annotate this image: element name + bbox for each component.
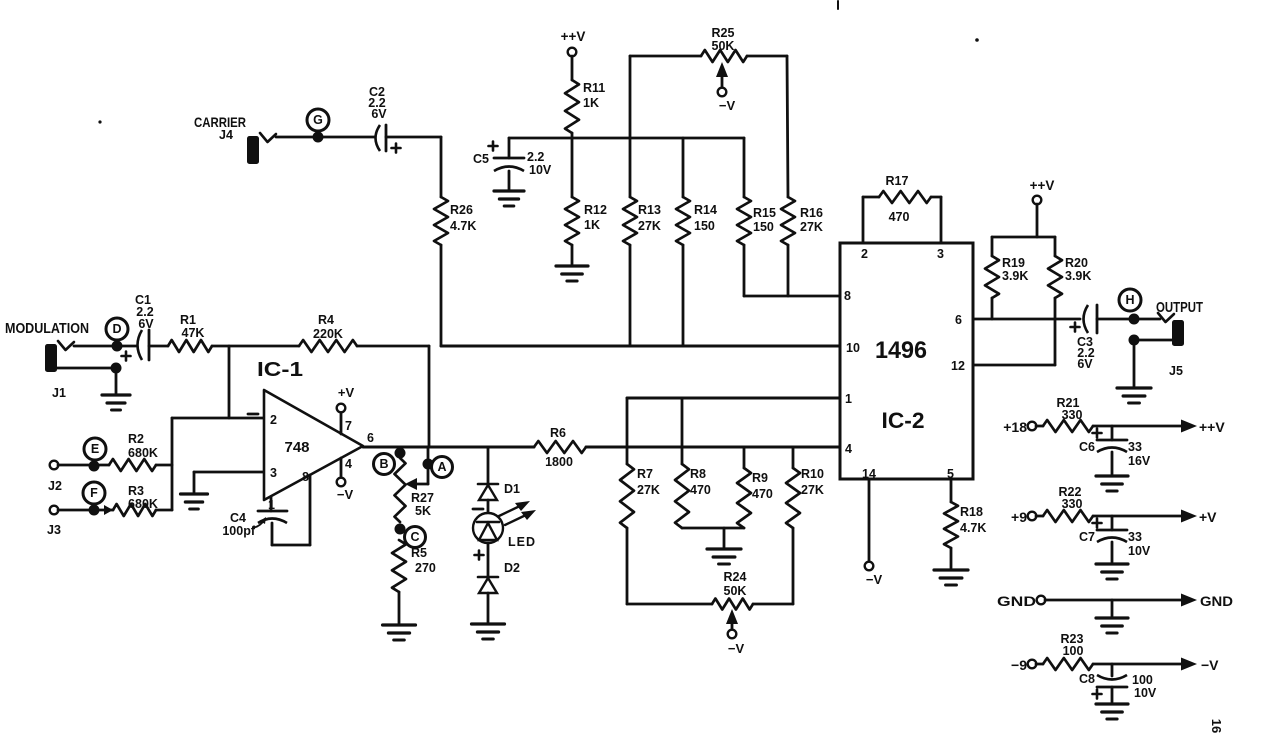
svg-text:A: A — [437, 460, 446, 474]
wire R11 to R12 — [571, 133, 574, 197]
svg-text:2: 2 — [861, 247, 868, 261]
wire -9 to R23 — [1036, 663, 1043, 666]
wire R20 top — [1054, 237, 1057, 256]
label R18 value — [960, 505, 986, 535]
terminal R25 wiper -V — [718, 88, 727, 97]
svg-text:J3: J3 — [47, 523, 61, 537]
pin 2 label IC2 — [861, 247, 868, 261]
svg-text:R7: R7 — [637, 467, 653, 481]
label -V R24 — [728, 641, 745, 656]
resistor R20 — [1048, 256, 1062, 298]
wire R3 to pin2 rail — [156, 509, 172, 512]
svg-text:4.7K: 4.7K — [960, 521, 986, 535]
capacitor C8 — [1093, 675, 1128, 699]
wire R8 R9 bottoms — [682, 527, 744, 530]
svg-text:+18: +18 — [1003, 419, 1027, 435]
wire pin3 to ground — [193, 472, 196, 492]
resistor R19 — [985, 256, 999, 298]
resistor R16 — [781, 197, 795, 245]
node F — [83, 482, 105, 504]
svg-text:D2: D2 — [504, 561, 520, 575]
wire pin1 to R7 — [626, 398, 629, 464]
potentiometer R24 — [712, 599, 753, 610]
wire C7 to ground — [1111, 542, 1114, 562]
pin 8 label — [302, 470, 309, 484]
ground J1 — [102, 395, 130, 410]
label C7 value — [1128, 530, 1151, 558]
potentiometer R27 — [395, 458, 406, 522]
svg-text:6: 6 — [367, 431, 374, 445]
wire LED stub — [487, 447, 490, 484]
svg-text:R15: R15 — [753, 206, 776, 220]
svg-text:3.9K: 3.9K — [1065, 269, 1091, 283]
svg-text:IC-1: IC-1 — [257, 359, 303, 381]
resistor R22 — [1043, 510, 1093, 522]
svg-text:R1: R1 — [180, 313, 196, 327]
resistor R11 — [565, 80, 579, 133]
wire pin3 stub — [931, 197, 941, 243]
wire J4 tip to G — [276, 136, 374, 139]
label ++V top — [561, 29, 586, 44]
wire R25 to R13 — [629, 56, 632, 197]
label R8 value — [690, 467, 711, 497]
label C5 value — [527, 150, 552, 177]
svg-text:748: 748 — [285, 439, 310, 456]
svg-text:R11: R11 — [583, 81, 605, 95]
svg-text:++V: ++V — [1030, 178, 1055, 193]
wire GND line — [1045, 599, 1181, 602]
resistor R21 — [1043, 420, 1093, 432]
wire pin2 line — [172, 417, 264, 420]
label +9 — [1011, 509, 1027, 525]
svg-text:50K: 50K — [724, 584, 747, 598]
capacitor C2 — [376, 125, 401, 153]
resistor R12 — [565, 197, 579, 245]
LED — [473, 513, 503, 543]
arrow GND — [1181, 594, 1197, 607]
svg-text:R26: R26 — [450, 203, 473, 217]
node A stub — [427, 447, 430, 484]
pin 7 stub — [340, 412, 343, 434]
svg-text:50K: 50K — [712, 39, 735, 53]
wire R4 to feedback corner — [357, 345, 429, 348]
label +V opamp — [338, 385, 355, 400]
wire J5 sleeve — [1134, 339, 1172, 342]
terminal -9 — [1028, 660, 1037, 669]
label C2 value — [368, 85, 387, 121]
svg-text:27K: 27K — [800, 220, 823, 234]
wire +18 to R21 — [1036, 425, 1043, 428]
node G — [307, 109, 329, 131]
svg-text:270: 270 — [415, 561, 436, 575]
wire R21 to ++V arrow — [1093, 425, 1181, 428]
svg-text:100pf: 100pf — [222, 524, 255, 538]
ground pin3 — [181, 494, 208, 509]
svg-text:−V: −V — [337, 487, 354, 502]
label R24 value — [724, 570, 747, 598]
svg-text:100: 100 — [1063, 644, 1084, 658]
svg-text:3.9K: 3.9K — [1002, 269, 1028, 283]
node D — [106, 318, 128, 340]
wire pin10 rail — [441, 345, 840, 348]
svg-text:R12: R12 — [584, 203, 607, 217]
label +V out — [1199, 509, 1217, 525]
svg-text:J1: J1 — [52, 386, 66, 400]
svg-text:J2: J2 — [48, 479, 62, 493]
svg-text:−V: −V — [719, 98, 736, 113]
junction J1 sleeve dot — [111, 363, 122, 374]
pin 6 label IC2 — [955, 313, 962, 327]
wire C6 to ground — [1111, 452, 1114, 474]
ground C5 — [494, 191, 524, 206]
svg-text:R13: R13 — [638, 203, 661, 217]
junction J5 sleeve dot — [1129, 335, 1140, 346]
wire R13 to pin10 rail — [629, 245, 632, 346]
svg-text:C6: C6 — [1079, 440, 1095, 454]
svg-text:R24: R24 — [724, 570, 747, 584]
label R26 value — [450, 203, 476, 233]
label LED — [508, 535, 536, 549]
jack J1 — [45, 341, 74, 372]
resistor R1 — [168, 340, 212, 352]
wire pin2 vertical rail — [171, 418, 174, 510]
scan speck top — [837, 1, 839, 9]
node B dot — [395, 448, 406, 459]
svg-text:B: B — [379, 457, 388, 471]
ground R5 — [383, 625, 416, 640]
svg-text:R14: R14 — [694, 203, 717, 217]
svg-text:3: 3 — [937, 247, 944, 261]
terminal GND — [1037, 596, 1046, 605]
wire R1 to R4 — [212, 345, 299, 348]
svg-text:R2: R2 — [128, 432, 144, 446]
terminal +9 — [1028, 512, 1037, 521]
wire pin2 stub — [863, 197, 879, 243]
pin 1 label IC2 — [845, 392, 852, 406]
arrow ++V — [1181, 420, 1197, 433]
wire opamp output line — [363, 446, 534, 449]
svg-text:R3: R3 — [128, 484, 144, 498]
wire pin4 to R9 — [743, 447, 746, 468]
wire C7 tap — [1111, 516, 1114, 530]
label CARRIER — [194, 114, 246, 130]
label minus opamp — [248, 413, 258, 416]
svg-text:J4: J4 — [219, 128, 233, 142]
svg-text:R16: R16 — [800, 206, 823, 220]
resistor R26 — [434, 197, 448, 245]
svg-text:1496: 1496 — [875, 337, 927, 364]
svg-text:330: 330 — [1062, 408, 1083, 422]
svg-text:GND: GND — [1200, 594, 1233, 609]
svg-text:10V: 10V — [1134, 686, 1157, 700]
pin 8 label IC2 — [844, 289, 851, 303]
capacitor C6 — [1093, 429, 1128, 453]
resistor R17 — [879, 191, 931, 203]
label +18 — [1003, 419, 1027, 435]
wire C6 tap — [1111, 426, 1114, 440]
svg-text:+9: +9 — [1011, 509, 1027, 525]
svg-text:4: 4 — [845, 442, 852, 456]
wire R19 top — [991, 237, 994, 256]
wire R20 to pin12 — [1054, 298, 1057, 365]
label C3 value — [1077, 335, 1095, 371]
wire R2 to pin2 rail — [156, 464, 172, 467]
wire pin4 rail — [586, 446, 840, 449]
label R9 value — [752, 471, 773, 501]
capacitor C5 — [489, 142, 525, 172]
wire R14 top — [682, 138, 685, 197]
pin 4 label — [345, 457, 352, 471]
label D1 — [504, 482, 520, 496]
label C6 — [1079, 440, 1095, 454]
svg-text:6: 6 — [955, 313, 962, 327]
svg-text:MODULATION: MODULATION — [5, 321, 89, 337]
ground LED — [472, 624, 505, 639]
pin 3 label — [270, 466, 277, 480]
svg-text:6V: 6V — [371, 107, 387, 121]
wire pin5 stub — [950, 479, 953, 502]
wire R26 to pin10 rail — [440, 245, 443, 346]
wire J3 to R3 — [58, 509, 113, 512]
ground C7 — [1096, 564, 1128, 579]
pin 7 label — [345, 419, 352, 433]
wire R25 to R16 — [787, 56, 788, 197]
wire pin3 line — [194, 471, 264, 474]
jack J5 — [1158, 313, 1184, 346]
wire J1 sleeve to ground — [115, 368, 118, 393]
svg-text:J5: J5 — [1169, 364, 1183, 378]
wiper R24 — [726, 609, 738, 630]
wire +9 to R22 — [1036, 515, 1043, 518]
node H — [1119, 289, 1141, 311]
arrow +V — [1181, 510, 1197, 523]
svg-text:27K: 27K — [637, 483, 660, 497]
label R27 value — [411, 491, 434, 518]
label ++V right — [1030, 178, 1055, 193]
svg-text:8: 8 — [302, 470, 309, 484]
label C1 value — [135, 293, 154, 331]
label R17 value — [886, 174, 910, 224]
wire C3 to J5 — [1097, 318, 1160, 321]
svg-text:R9: R9 — [752, 471, 768, 485]
pin 2 label — [270, 413, 277, 427]
wire ++V to R11 — [571, 56, 574, 80]
ground J5 — [1117, 388, 1151, 403]
potentiometer R25 — [701, 50, 747, 62]
wire R25 left lead — [630, 55, 701, 58]
resistor R18 — [944, 502, 958, 548]
resistor R14 — [676, 197, 690, 245]
svg-text:1: 1 — [845, 392, 852, 406]
ground C6 — [1096, 476, 1128, 491]
svg-text:4.7K: 4.7K — [450, 219, 476, 233]
capacitor C7 — [1093, 519, 1128, 543]
scan speck left — [98, 120, 101, 123]
svg-text:D: D — [112, 322, 121, 336]
label R23 value — [1061, 632, 1084, 658]
node F dot — [89, 505, 100, 516]
terminal ++V — [568, 48, 577, 57]
svg-text:GND: GND — [997, 594, 1036, 609]
wire pin4 to R10 — [792, 447, 795, 468]
terminal J2 — [50, 461, 59, 470]
svg-text:7: 7 — [345, 419, 352, 433]
ground GND row — [1096, 618, 1128, 633]
node H dot — [1129, 314, 1140, 325]
svg-text:+V: +V — [338, 385, 355, 400]
svg-text:470: 470 — [690, 483, 711, 497]
svg-text:C8: C8 — [1079, 672, 1095, 686]
resistor R23 — [1043, 658, 1093, 670]
pin 1 label — [268, 498, 275, 512]
wire R23 to -V arrow — [1093, 663, 1181, 666]
svg-text:R6: R6 — [550, 426, 566, 440]
wire C1 to R1 — [149, 345, 168, 348]
svg-text:2.2: 2.2 — [527, 150, 544, 164]
svg-text:680K: 680K — [128, 446, 158, 460]
svg-text:1K: 1K — [584, 218, 600, 232]
label R11 value — [583, 81, 605, 110]
wire R16 to pin8 rail — [787, 245, 790, 296]
wire D1 to LED — [487, 500, 490, 514]
label 748 — [285, 439, 310, 456]
node D dot — [112, 341, 123, 352]
svg-text:+V: +V — [1199, 509, 1217, 525]
svg-text:3: 3 — [270, 466, 277, 480]
label R12 value — [584, 203, 607, 232]
svg-text:6V: 6V — [1077, 357, 1093, 371]
svg-text:C5: C5 — [473, 152, 489, 166]
svg-text:E: E — [91, 442, 99, 456]
svg-text:2: 2 — [270, 413, 277, 427]
svg-text:R19: R19 — [1002, 256, 1025, 270]
svg-text:1K: 1K — [583, 96, 599, 110]
wire GND tap — [1111, 600, 1114, 616]
wiper R25 — [716, 62, 728, 88]
capacitor C3 — [1071, 305, 1098, 333]
svg-text:16: 16 — [1209, 719, 1224, 733]
svg-text:150: 150 — [753, 220, 774, 234]
label J2 — [48, 479, 62, 493]
svg-text:680K: 680K — [128, 497, 158, 511]
wire pin6 line — [973, 318, 1080, 321]
resistor R9 — [737, 468, 751, 528]
label R20 value — [1065, 256, 1091, 283]
svg-text:R5: R5 — [411, 546, 427, 560]
pin 5 label IC2 — [947, 467, 954, 481]
label R5 value — [411, 546, 436, 575]
node E — [84, 438, 106, 460]
wire ++V to R19 R20 — [992, 204, 1055, 237]
label D2 — [504, 561, 520, 575]
label R4 value — [313, 313, 343, 341]
ground R8R9 — [707, 549, 741, 564]
label R16 value — [800, 206, 823, 234]
svg-text:220K: 220K — [313, 327, 343, 341]
node G dot — [313, 132, 324, 143]
svg-text:33: 33 — [1128, 440, 1142, 454]
arrow -V — [1181, 658, 1197, 671]
wire R15 to pin8 rail — [743, 245, 746, 296]
svg-text:G: G — [313, 113, 323, 127]
wire R18 to ground — [950, 548, 953, 568]
ground C8 — [1096, 704, 1128, 719]
label -9 — [1011, 657, 1027, 673]
label IC-1 — [257, 359, 303, 381]
wire R10 to R24 — [753, 528, 793, 604]
label -V R25 — [719, 98, 736, 113]
resistor R4 — [299, 340, 357, 352]
label 1496 — [875, 337, 927, 364]
pin 12 label IC2 — [951, 359, 965, 373]
wire J1 sleeve — [57, 367, 116, 370]
svg-text:R8: R8 — [690, 467, 706, 481]
capacitor C4 — [258, 511, 287, 523]
svg-text:150: 150 — [694, 219, 715, 233]
wire C8 tap — [1111, 664, 1114, 676]
label MODULATION — [5, 321, 89, 337]
svg-text:470: 470 — [752, 487, 773, 501]
wire feedback vertical — [428, 346, 431, 447]
diode D1 — [478, 484, 498, 500]
wire C2 to R26 — [386, 137, 441, 197]
terminal +18 — [1028, 422, 1037, 431]
svg-text:10V: 10V — [1128, 544, 1151, 558]
svg-text:C: C — [410, 530, 419, 544]
pin 4 stub — [340, 458, 343, 478]
svg-text:R17: R17 — [886, 174, 909, 188]
pin 3 label IC2 — [937, 247, 944, 261]
terminal ++V right — [1033, 196, 1042, 205]
op-amp IC-1 — [264, 390, 363, 500]
svg-text:R10: R10 — [801, 467, 824, 481]
terminal -V opamp — [337, 478, 346, 487]
label OUTPUT — [1156, 299, 1203, 316]
svg-text:100: 100 — [1132, 673, 1153, 687]
label C4 — [222, 511, 255, 538]
label C8 — [1079, 672, 1095, 686]
svg-text:R27: R27 — [411, 491, 434, 505]
wire pin8 rail — [744, 295, 840, 298]
label R15 value — [753, 206, 776, 234]
wire C5 stub — [508, 138, 511, 158]
wiper R27 — [405, 478, 428, 490]
ground R12 — [556, 266, 588, 281]
node C — [405, 527, 426, 548]
capacitor C1 — [122, 330, 150, 361]
svg-text:330: 330 — [1062, 497, 1083, 511]
label ++V out — [1199, 419, 1225, 435]
svg-text:OUTPUT: OUTPUT — [1156, 299, 1203, 316]
node A dot — [423, 459, 434, 470]
resistor R13 — [623, 197, 637, 245]
ground R18 — [934, 570, 968, 585]
jack J4 — [247, 133, 276, 164]
svg-text:27K: 27K — [638, 219, 661, 233]
svg-text:27K: 27K — [801, 483, 824, 497]
wire R7 to R24 — [627, 528, 712, 604]
svg-text:R20: R20 — [1065, 256, 1088, 270]
svg-text:H: H — [1125, 293, 1134, 307]
terminal -V pin14 — [865, 562, 874, 571]
wire pin14 stub — [868, 479, 871, 562]
svg-text:16V: 16V — [1128, 454, 1151, 468]
wire C5 to ground — [508, 171, 511, 190]
label R25 value — [712, 26, 735, 53]
svg-text:C4: C4 — [230, 511, 246, 525]
label C6 value — [1128, 440, 1151, 468]
label R10 value — [801, 467, 824, 497]
